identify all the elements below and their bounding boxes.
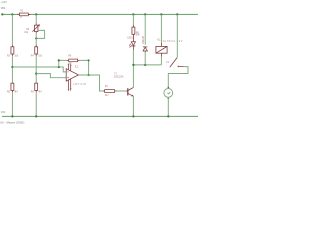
transistor T1 [114, 73, 133, 96]
junction dots on +12V rail [11, 13, 13, 15]
wire motor to rail [167, 97, 169, 116]
wire feedback left [59, 60, 67, 67]
wire diode column bottom [144, 52, 146, 65]
node divider A tap [11, 66, 13, 68]
svg-text:4k7: 4k7 [105, 95, 109, 97]
svg-text:V01: V01 [1, 6, 6, 10]
svg-text:0V - Masse (GND): 0V - Masse (GND) [0, 120, 24, 124]
node bus-diode column [144, 64, 146, 66]
svg-text:R9: R9 [31, 92, 35, 94]
relay contact K1 [166, 58, 184, 68]
svg-text:R4: R4 [31, 55, 35, 57]
svg-text:K1: K1 [166, 62, 170, 64]
svg-text:390: 390 [136, 35, 141, 37]
wire divider A lower [11, 92, 13, 116]
resistor R1 (inline top rail) [18, 10, 31, 18]
svg-text:LM741P: LM741P [73, 84, 87, 86]
node rail start [1, 13, 3, 15]
svg-text:10k: 10k [38, 55, 43, 57]
relay coil K1 [156, 39, 183, 56]
svg-text:1N4148: 1N4148 [143, 35, 145, 44]
svg-text:T1: T1 [114, 73, 117, 75]
svg-text:4k7: 4k7 [14, 92, 18, 94]
svg-text:4k7: 4k7 [38, 92, 42, 94]
wire diode column top [144, 14, 146, 44]
node feedback-output [87, 74, 89, 76]
svg-text:+12V: +12V [1, 0, 7, 4]
svg-text:R6: R6 [68, 56, 72, 58]
svg-text:R1: R1 [20, 10, 24, 12]
svg-text:R5: R5 [7, 92, 11, 94]
svg-text:TGL5534-12V: TGL5534-12V [161, 41, 184, 43]
resistor R9 [31, 83, 43, 94]
op-amp IC1 [66, 64, 87, 91]
node bus-LED column [132, 64, 134, 66]
LED LED1 [127, 36, 135, 49]
node feedback top-left [58, 59, 60, 61]
svg-text:LED1: LED1 [127, 37, 133, 39]
svg-text:R2: R2 [26, 29, 30, 31]
resistor R4 [31, 45, 43, 58]
diode D1 [143, 35, 148, 52]
svg-text:IC1: IC1 [75, 67, 79, 69]
node divider B tap [35, 72, 37, 74]
wire +12V top rail [2, 13, 198, 15]
resistor R5 [7, 83, 19, 94]
wire coil bottom [160, 57, 162, 65]
resistor R3 [7, 45, 19, 58]
wire 0V bottom rail [2, 115, 198, 117]
node feedback tap [58, 66, 60, 68]
wire input 1 [12, 67, 66, 72]
wire contact to motor [168, 67, 188, 89]
svg-text:10k: 10k [24, 32, 29, 34]
resistor R7 [103, 86, 117, 97]
resistor R8 [132, 25, 140, 37]
wire to base [117, 90, 127, 92]
node wiper join [35, 37, 37, 39]
junction dots on 0V rail [11, 115, 13, 117]
svg-text:R7: R7 [105, 86, 109, 88]
svg-text:1k: 1k [20, 17, 23, 19]
wire divider A upper [11, 14, 13, 44]
resistor R6 [67, 56, 80, 65]
svg-text:2N2222A: 2N2222A [114, 76, 124, 79]
wire divider B mid2 [35, 56, 37, 83]
motor M1 [164, 87, 173, 99]
wire feedback right [80, 60, 89, 75]
wire input 2 [36, 74, 66, 78]
trimmer R2 [24, 23, 39, 34]
wire LED column top [132, 14, 134, 25]
wire collector bus [133, 64, 161, 66]
wire trimmer wiper loop [36, 30, 44, 38]
wire relay column top [160, 14, 162, 42]
wire collector up [132, 50, 134, 88]
wire op-amp output [79, 75, 103, 91]
svg-text:V02: V02 [1, 110, 6, 114]
wire divider B lower [35, 92, 37, 116]
wire divider A mid [11, 56, 13, 83]
wire contact column top [176, 14, 178, 57]
wire emitter to rail [132, 96, 134, 116]
wire divider B upper [35, 14, 37, 23]
wire divider B mid1 [35, 33, 37, 45]
svg-text:10k: 10k [14, 55, 19, 57]
svg-text:R3: R3 [7, 55, 11, 57]
